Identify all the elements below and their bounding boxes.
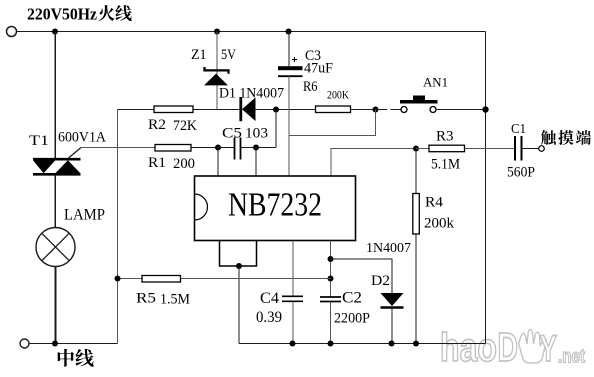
resistor R3	[429, 145, 465, 152]
svg-text:200k: 200k	[424, 216, 455, 232]
svg-text:560P: 560P	[507, 165, 535, 181]
node tab	[236, 263, 242, 269]
node C4 ground	[290, 341, 296, 347]
node R6 right	[373, 107, 379, 113]
wire C1 to touch terminal	[522, 148, 539, 150]
node R5 end	[328, 276, 334, 282]
wire R3 to C1	[465, 148, 516, 150]
node R3 R4	[413, 146, 419, 152]
resistor R4	[413, 194, 420, 235]
wire tab to ground line	[238, 266, 240, 344]
capacitor C2	[320, 297, 341, 302]
resistor R5	[142, 276, 181, 283]
triac T1	[33, 159, 81, 174]
terminal touch pad	[539, 146, 545, 152]
node D1 cathode	[273, 107, 279, 113]
wire R6 to AN1 node	[351, 109, 376, 111]
svg-text:5V: 5V	[221, 47, 236, 63]
IC U1 NB7232 body	[195, 176, 356, 241]
node D2 branch	[328, 256, 334, 262]
wire C2 bottom lead	[330, 302, 332, 344]
svg-text:R5: R5	[136, 291, 156, 307]
wire D2 branch	[331, 259, 393, 293]
wire IC pin from C5 left	[217, 148, 219, 177]
wire C3 node to R6 right node	[289, 110, 376, 136]
wire AN1 to right vertical	[436, 109, 486, 111]
pushbutton AN1	[400, 96, 438, 113]
wire R2 to D1	[193, 109, 240, 111]
wire top rail (live)	[17, 31, 486, 33]
svg-text:R3: R3	[436, 129, 454, 145]
svg-text:hao: hao	[440, 326, 497, 370]
svg-text:72K: 72K	[173, 118, 197, 134]
svg-text:2200P: 2200P	[334, 311, 370, 327]
diode D1 1N4007	[241, 97, 256, 121]
wire ground line	[239, 343, 486, 345]
svg-text:200K: 200K	[327, 90, 350, 102]
svg-text:C2: C2	[342, 290, 362, 307]
capacitor C5	[235, 138, 241, 160]
wire IC pin to C2	[330, 241, 332, 298]
node R5 left	[115, 276, 121, 282]
svg-text:D2: D2	[371, 273, 390, 289]
svg-text:103: 103	[245, 126, 268, 142]
wire C4 bottom lead	[292, 301, 294, 343]
wire R2 line left	[118, 109, 155, 111]
wire D1 cathode to R6	[254, 109, 316, 111]
svg-text:200: 200	[173, 156, 195, 172]
label neutral wire	[58, 349, 74, 367]
svg-text:1.5M: 1.5M	[160, 292, 190, 308]
resistor R1	[155, 145, 191, 152]
plus sign C3	[292, 57, 297, 62]
wire C4 top lead	[292, 241, 294, 297]
svg-text:T1: T1	[29, 133, 49, 149]
diode D2 1N4007	[381, 293, 404, 308]
capacitor C4	[282, 296, 303, 301]
node live rail T1 branch	[52, 29, 58, 35]
wire R4 top lead	[415, 149, 417, 194]
wire gate R1 line	[81, 147, 155, 149]
svg-text:LAMP: LAMP	[64, 207, 105, 224]
wire C5 right	[241, 147, 277, 149]
wire neutral rail	[29, 343, 118, 345]
capacitor C1	[515, 136, 522, 161]
wire IC pin to R3 line	[331, 149, 416, 177]
wire right vertical drop	[485, 32, 487, 344]
svg-text:D1 1N4007: D1 1N4007	[219, 86, 284, 102]
svg-text:R4: R4	[425, 195, 444, 211]
node D2 ground	[389, 341, 395, 347]
svg-text:600V1A: 600V1A	[58, 130, 106, 146]
svg-text:5.1M: 5.1M	[431, 157, 460, 173]
terminal neutral input	[20, 339, 29, 348]
wire dash to AN1	[376, 109, 401, 111]
svg-text:C4: C4	[260, 290, 279, 307]
svg-text:C1: C1	[511, 121, 526, 136]
wire node to R3	[416, 148, 429, 150]
wire R4 bottom lead	[415, 234, 417, 344]
node live rail Z1 branch	[214, 29, 220, 35]
wire R5 to node	[181, 278, 331, 280]
node live rail C3 branch	[286, 29, 292, 35]
svg-text:C5: C5	[222, 126, 242, 142]
wire C5 node up to D1 node	[275, 110, 277, 148]
wire left vertical	[117, 110, 119, 344]
node AN1 right	[482, 106, 488, 112]
wire zener Z1 branch	[216, 32, 218, 110]
resistor R6	[316, 106, 351, 113]
wire IC pin from C5 right	[255, 148, 257, 177]
node C5 right	[253, 145, 259, 151]
node C2 ground	[328, 341, 334, 347]
svg-text:.net: .net	[558, 347, 586, 368]
lamp	[36, 228, 75, 267]
node lamp neutral rail	[52, 341, 58, 347]
wire T1 to lamp	[54, 174, 56, 228]
IC ground tab	[220, 241, 257, 267]
wire T1 gate diagonal	[68, 148, 81, 159]
wire C3 bottom to IC pin	[288, 76, 290, 176]
svg-text:AN1: AN1	[423, 76, 448, 90]
wire C3 branch upper	[288, 32, 290, 67]
wire R5 left	[118, 278, 143, 280]
wire T1 anode from rail	[54, 32, 56, 160]
svg-text:R6: R6	[303, 79, 318, 95]
svg-text:R1: R1	[148, 155, 166, 171]
svg-text:Y: Y	[540, 328, 558, 369]
svg-text:Z1: Z1	[191, 47, 207, 63]
watermark haoDIY.net	[440, 324, 586, 370]
svg-text:R2: R2	[148, 117, 166, 133]
svg-text:NB7232: NB7232	[228, 187, 322, 224]
zener diode Z1	[204, 67, 229, 85]
terminal 220V live input	[7, 27, 17, 37]
svg-text:1N4007: 1N4007	[366, 241, 411, 256]
wire lamp to neutral rail	[55, 267, 57, 344]
node R4 ground	[413, 341, 419, 347]
wire R1 to C5	[191, 147, 235, 149]
svg-text:0.39: 0.39	[256, 309, 282, 326]
svg-text:47uF: 47uF	[304, 61, 333, 77]
resistor R2	[154, 106, 193, 113]
label touch terminal	[541, 130, 556, 145]
svg-text:220V50Hz: 220V50Hz	[27, 5, 97, 24]
capacitor C3 electrolytic	[278, 66, 303, 76]
node C5 left	[215, 145, 221, 151]
wire D2 cathode to ground	[391, 308, 393, 344]
svg-text:D: D	[498, 324, 519, 370]
